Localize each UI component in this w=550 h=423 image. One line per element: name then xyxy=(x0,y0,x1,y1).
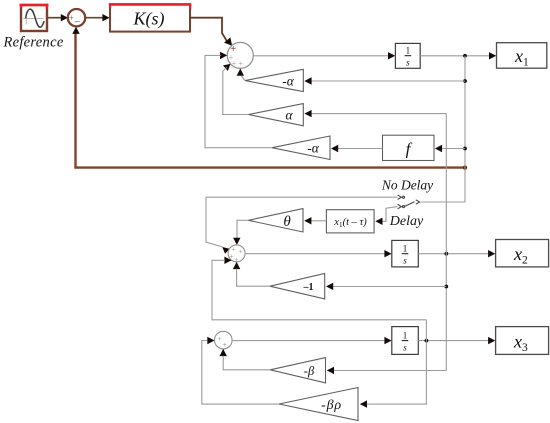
arrowhead into S3 bottom xyxy=(220,349,227,356)
svg-text:+: + xyxy=(222,340,226,349)
svg-text:K(s): K(s) xyxy=(133,9,165,30)
wire x1 bus to gain -alpha (row2) xyxy=(311,80,466,82)
integrator 1/s (x2) xyxy=(392,240,419,267)
wire S2 to integrator 2 xyxy=(245,253,386,255)
delay path wire (switch to delay block) xyxy=(382,207,398,222)
svg-text:1: 1 xyxy=(403,331,408,341)
junction dot on feedback line xyxy=(463,166,467,170)
svg-text:Delay: Delay xyxy=(389,214,424,229)
arrowhead into -alpha row4 xyxy=(331,145,338,152)
svg-text:-β: -β xyxy=(304,364,315,378)
arrowhead into S0 bottom xyxy=(72,27,79,34)
gain -beta-rho xyxy=(279,388,358,421)
svg-text:s: s xyxy=(403,255,407,265)
svg-text:+: + xyxy=(69,13,74,23)
feedback wire (x1 back to S0) xyxy=(76,32,466,168)
no-delay wire (switch to x2 sum) xyxy=(206,197,397,247)
summing junction S0 xyxy=(68,9,85,26)
S2 sign marks xyxy=(229,245,242,265)
controller K(s) xyxy=(109,3,191,31)
svg-text:+: + xyxy=(217,334,221,343)
wire S3 to integrator 3 xyxy=(232,340,386,342)
arrowhead into x1 box xyxy=(489,52,496,59)
wire integrator 3 to x3 box xyxy=(418,340,489,342)
integrator 1/s (x1) xyxy=(395,43,420,68)
summing junction S2 xyxy=(228,245,245,262)
manual switch xyxy=(398,195,420,209)
vertical bus x3 up xyxy=(425,320,427,341)
delay block x1(t-tau) xyxy=(326,210,374,233)
junction dot f row xyxy=(463,147,467,151)
wire -beta to S3 bottom xyxy=(223,356,270,370)
gain alpha (row3) xyxy=(248,104,303,126)
arrowhead into theta xyxy=(304,217,311,224)
arrowhead into f xyxy=(435,145,442,152)
svg-text:+: + xyxy=(232,59,237,68)
arrowhead into S1 bottom xyxy=(237,69,244,76)
svg-text:–: – xyxy=(74,17,81,28)
gain theta xyxy=(248,209,303,232)
vertical bus carrying x2 xyxy=(445,114,447,371)
wire x2 bus to gain -beta xyxy=(333,370,446,372)
arrowhead into S3 left xyxy=(207,337,214,344)
junction dot x2 line xyxy=(444,252,448,256)
svg-text:+: + xyxy=(238,60,243,69)
arrowhead into S1 top-left xyxy=(224,37,235,48)
svg-text:+: + xyxy=(229,252,233,261)
arrowhead into delay block xyxy=(375,218,382,225)
wire theta to x2 sum top xyxy=(237,220,248,239)
arrowhead into K(s) xyxy=(102,14,109,21)
wire x2 bus to gain -1 xyxy=(332,286,446,288)
arrowhead into -beta xyxy=(327,367,334,374)
arrowhead into integrator 2 xyxy=(384,250,391,257)
svg-text:No Delay: No Delay xyxy=(381,178,433,193)
source block (sine reference) xyxy=(20,4,49,31)
wire -alpha row2 to S1 bottom xyxy=(242,76,245,81)
junction dot row2 xyxy=(463,79,467,83)
junction dot x1 line xyxy=(463,54,467,58)
svg-text:Reference: Reference xyxy=(2,35,63,51)
arrowhead into -1 xyxy=(326,283,333,290)
wire -1 to S2 bottom xyxy=(237,269,270,287)
output box x3 xyxy=(496,327,549,355)
wire K(s) to sum S1 xyxy=(190,18,228,43)
junction dot -1 row xyxy=(444,285,448,289)
gain -alpha (row4) xyxy=(272,136,330,160)
junction dot x3 line xyxy=(425,339,429,343)
wire source to sum S0 xyxy=(47,17,62,19)
svg-text:–1: –1 xyxy=(303,282,314,293)
arrowhead into S1 left xyxy=(220,52,227,59)
arrowhead into S2 lower-left xyxy=(224,257,231,264)
block f xyxy=(383,135,435,160)
gain -1 xyxy=(270,274,325,299)
arrowhead into integrator 3 xyxy=(384,337,391,344)
S3 sign marks xyxy=(217,334,226,349)
summing junction S1 xyxy=(227,42,253,68)
wire alpha row3 to S1 lower-left xyxy=(223,67,249,114)
wire -alpha row4 to S1 left xyxy=(205,55,272,147)
arrowhead into x3 box xyxy=(488,337,495,344)
svg-text:θ: θ xyxy=(283,214,291,230)
svg-text:-βρ: -βρ xyxy=(321,398,342,413)
wire integrator 1 to x1 xyxy=(420,55,490,57)
arrowhead into alpha row3 xyxy=(304,110,311,117)
S1 sign marks xyxy=(229,44,244,68)
arrowhead into x2 box xyxy=(488,250,495,257)
wire integrator 2 to x2 box xyxy=(418,253,489,255)
vertical bus carrying x1 xyxy=(421,56,465,202)
wire x2 bus to gain alpha (row3) xyxy=(311,113,447,115)
integrator 1/s (x3) xyxy=(392,327,419,355)
arrowhead into integrator 1 xyxy=(388,52,395,59)
svg-text:x1(t – τ): x1(t – τ) xyxy=(333,217,367,229)
arrowhead into x2 sum top xyxy=(233,238,240,245)
output box x2 xyxy=(496,240,549,267)
svg-text:1: 1 xyxy=(406,46,411,56)
output box x1 xyxy=(497,43,547,69)
svg-text:-α: -α xyxy=(282,74,294,89)
svg-text:s: s xyxy=(406,57,410,67)
svg-text:1: 1 xyxy=(403,244,408,254)
wire S1 to integrator 1 xyxy=(253,55,389,57)
wire S0 to K(s) xyxy=(85,17,103,19)
wire -beta-rho to S3 left xyxy=(202,341,279,405)
arrowhead into -alpha row2 xyxy=(304,77,311,84)
wire x3 bus to S2 lower-left xyxy=(212,260,426,320)
arrowhead into -beta-rho xyxy=(360,400,367,407)
gain -beta xyxy=(270,358,325,383)
arrowhead into x2 sum upper-left xyxy=(222,247,229,254)
arrowhead into S1 lower-left xyxy=(223,64,231,71)
wire delay block to theta xyxy=(311,220,327,222)
svg-text:α: α xyxy=(285,107,293,122)
summing junction S3 xyxy=(215,331,233,349)
gain -alpha (row2) xyxy=(245,69,303,91)
svg-text:+: + xyxy=(238,247,242,256)
arrowhead into S0 xyxy=(61,14,68,21)
wire f to gain -alpha (row4) xyxy=(332,148,383,150)
svg-text:s: s xyxy=(403,342,407,352)
vertical bus carrying x3 down xyxy=(366,341,426,405)
arrowhead into S2 bottom xyxy=(233,262,240,269)
wire x1 bus to block f xyxy=(436,148,465,150)
svg-text:-α: -α xyxy=(307,141,319,156)
